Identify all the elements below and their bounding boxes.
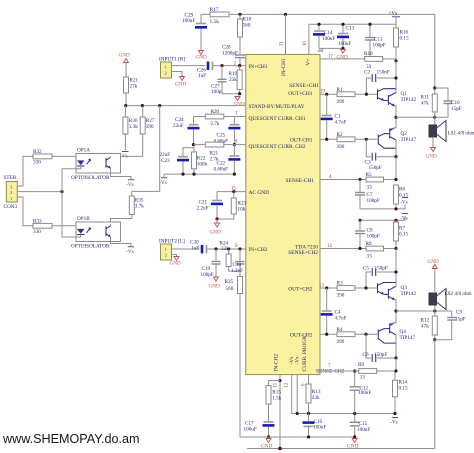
- svg-text:C5: C5: [363, 266, 369, 272]
- wire sense bottom link: [360, 205, 405, 209]
- svg-text:3.3k: 3.3k: [129, 124, 138, 130]
- svg-text:C9: C9: [456, 310, 462, 316]
- wire INPUT1 pin2 to gnd: [172, 72, 183, 77]
- resistor R10: [364, 51, 396, 70]
- resistor R32: [33, 149, 81, 165]
- resistor R3: [337, 281, 378, 299]
- svg-text:OP1B: OP1B: [77, 216, 90, 222]
- net -Vs sense CH1: [400, 198, 408, 206]
- node R3 C5 junction: [364, 286, 367, 289]
- svg-text:9: 9: [235, 244, 238, 249]
- svg-text:R33: R33: [33, 219, 42, 225]
- svg-text:TIP147: TIP147: [401, 137, 417, 143]
- node Q1 Q2 output: [394, 116, 397, 119]
- wire Q2 collector to R5 node: [395, 157, 397, 180]
- svg-text:u8: u8: [318, 49, 324, 54]
- wire OP1A collector: [110, 155, 112, 158]
- node C4 bottom: [325, 333, 328, 336]
- capacitor C21: [197, 192, 224, 219]
- wire -Vs pin13 drop: [296, 375, 298, 414]
- resistor R21: [124, 77, 139, 106]
- capacitor C5: [363, 266, 396, 289]
- wire +Vs rail: [309, 23, 396, 25]
- svg-text:100nF: 100nF: [357, 427, 370, 433]
- svg-text:3.7k: 3.7k: [135, 204, 144, 210]
- capacitor C26: [197, 62, 246, 80]
- svg-text:-Vs: -Vs: [126, 183, 133, 188]
- wire output CH2 to speaker node: [396, 310, 452, 312]
- wire OP1A emitter to -Vs: [111, 168, 132, 179]
- resistor R22: [192, 147, 208, 174]
- node C5 tap: [394, 270, 397, 273]
- node -Vs bus C15: [353, 412, 356, 415]
- resistor R7: [394, 220, 409, 248]
- node C8 top: [358, 219, 361, 222]
- capacitor C25: [214, 117, 241, 145]
- node C19 top: [214, 247, 217, 250]
- svg-text:15pF: 15pF: [451, 106, 462, 112]
- ground net label above R21: [119, 53, 130, 78]
- resistor R11: [421, 88, 438, 117]
- svg-text:100uF: 100uF: [338, 41, 351, 47]
- transistor Q4 TIP147: [378, 311, 415, 358]
- resistor R15: [266, 381, 282, 421]
- resistor R1: [337, 87, 378, 105]
- node C7 top: [358, 178, 361, 181]
- node bus C23: [181, 173, 184, 176]
- svg-text:-Vs: -Vs: [121, 155, 128, 160]
- wire INPUT2 pin1 to C20: [172, 248, 200, 250]
- capacitor C12: [350, 371, 372, 414]
- node IN-CH1 top junction: [284, 13, 287, 16]
- svg-text:390: 390: [337, 339, 345, 345]
- capacitor C3: [365, 139, 397, 171]
- wire INPUT1 pin1 to C26: [172, 65, 206, 67]
- resistor R19: [229, 66, 243, 94]
- ground at C13 C14: [337, 49, 348, 60]
- svg-text:-Vs: -Vs: [390, 421, 397, 426]
- node R8 R7 Q3 feed: [394, 247, 397, 250]
- ground below INPUT2: [170, 257, 181, 267]
- node R1 C2 junction: [365, 93, 368, 96]
- svg-text:TIP142: TIP142: [401, 97, 417, 103]
- svg-text:GND: GND: [175, 82, 186, 88]
- svg-text:-Vs: -Vs: [159, 181, 166, 186]
- svg-text:R25: R25: [225, 279, 234, 285]
- svg-text:100pF: 100pF: [373, 43, 386, 49]
- svg-text:QUESCENT CURR. CH2: QUESCENT CURR. CH2: [249, 144, 306, 150]
- resistor R5: [366, 172, 397, 190]
- resistor R35: [111, 196, 145, 224]
- svg-text:IN-CH1: IN-CH1: [281, 58, 287, 76]
- power +Vs: [389, 11, 401, 25]
- capacitor C20: [190, 240, 246, 254]
- capacitor C2: [364, 70, 396, 95]
- wire IN-CH1 top drop: [285, 14, 287, 54]
- wire STER pin3 to R32: [17, 156, 33, 186]
- svg-text:100uF: 100uF: [182, 18, 195, 24]
- svg-text:8: 8: [235, 140, 238, 145]
- wire Q3 collector feed: [395, 249, 397, 284]
- svg-text:OPTOISOLATOR: OPTOISOLATOR: [71, 244, 110, 250]
- resistor R12: [421, 311, 438, 340]
- svg-text:560: 560: [243, 23, 251, 29]
- node rail IN-CH2: [278, 447, 282, 451]
- svg-text:R3: R3: [337, 281, 343, 287]
- ground above LS2: [428, 259, 439, 269]
- svg-text:100uF: 100uF: [313, 425, 326, 431]
- wire pin17 stub: [320, 58, 365, 60]
- svg-text:R9: R9: [358, 362, 364, 368]
- svg-text:16: 16: [303, 41, 308, 46]
- resistor R36: [123, 106, 138, 151]
- node -Vs bus R13: [307, 412, 310, 415]
- node C17 gnd: [267, 435, 270, 438]
- wire -Vs pin12 drop: [292, 375, 395, 414]
- capacitor C23: [160, 148, 195, 174]
- svg-text:100pF: 100pF: [201, 272, 214, 278]
- wire OP1B collector: [110, 224, 112, 226]
- node speaker LS2 bottom: [433, 309, 436, 312]
- svg-text:OP1A: OP1A: [77, 148, 90, 154]
- capacitor C1: [321, 94, 347, 139]
- svg-text:390: 390: [337, 144, 345, 150]
- node IN-CH2 R15 branch: [278, 379, 281, 382]
- wire SENSE+CH2 stub: [320, 248, 366, 250]
- resistor R14: [393, 371, 408, 414]
- wire OP1B cathode to common: [62, 192, 81, 237]
- node standby R21: [124, 104, 127, 107]
- svg-text:R17: R17: [210, 7, 219, 13]
- node C21 bottom: [215, 217, 218, 220]
- svg-text:2.7k: 2.7k: [211, 121, 220, 127]
- resistor R2: [337, 132, 378, 150]
- svg-text:390: 390: [337, 293, 345, 299]
- svg-text:330: 330: [33, 159, 41, 165]
- svg-text:1200pF: 1200pF: [222, 51, 238, 57]
- net -Vs below R14: [390, 418, 398, 426]
- wire OUT-CH2 stub: [320, 333, 337, 335]
- node standby R27: [141, 104, 144, 107]
- svg-text:R10: R10: [364, 51, 373, 57]
- svg-text:OUT+CH1: OUT+CH1: [288, 91, 313, 97]
- svg-text:390: 390: [146, 124, 154, 130]
- svg-text:-Vs: -Vs: [126, 250, 133, 255]
- svg-text:R20: R20: [211, 109, 220, 115]
- resistor R33: [33, 219, 81, 235]
- svg-text:1.5k: 1.5k: [272, 396, 281, 402]
- svg-text:1.5k: 1.5k: [210, 19, 220, 25]
- svg-text:C23: C23: [161, 158, 170, 164]
- svg-text:47k: 47k: [421, 324, 429, 330]
- svg-text:560: 560: [226, 286, 234, 292]
- svg-text:2.2uF: 2.2uF: [197, 206, 209, 212]
- capacitor C8: [355, 220, 380, 248]
- wire V+ drop from +Vs rail: [308, 24, 310, 54]
- node R11 top feedback: [433, 86, 436, 89]
- net -Vs OP1A emitter: [126, 180, 134, 188]
- capacitor C11: [365, 24, 386, 59]
- svg-text:10k: 10k: [238, 207, 246, 213]
- ground below C19: [209, 277, 220, 290]
- svg-text:SENSE-CH1: SENSE-CH1: [286, 178, 315, 184]
- wire C14 C13 gnd link: [319, 47, 343, 49]
- svg-text:AC GND: AC GND: [249, 190, 270, 196]
- capacitor C13: [337, 24, 355, 48]
- node R5 R6: [394, 178, 397, 181]
- capacitor C9: [435, 310, 466, 340]
- svg-text:330: 330: [33, 229, 41, 235]
- optoisolator OP1B: [71, 216, 121, 250]
- svg-text:22k: 22k: [221, 246, 229, 252]
- capacitor C27: [211, 66, 240, 95]
- net -Vs quiescent bus: [159, 174, 167, 186]
- svg-text:QUESCENT CURR. CH1: QUESCENT CURR. CH1: [249, 116, 306, 122]
- wire OUT-CH1 stub: [320, 138, 337, 140]
- svg-text:33: 33: [367, 253, 373, 259]
- svg-text:www.SHEMOPAY.do.am: www.SHEMOPAY.do.am: [2, 432, 139, 446]
- svg-text:14: 14: [327, 244, 332, 249]
- svg-text:SENSE+CH1: SENSE+CH1: [289, 83, 319, 89]
- svg-text:GND: GND: [119, 53, 130, 59]
- wire stand-by line: [126, 105, 246, 107]
- svg-text:100uF: 100uF: [322, 36, 335, 42]
- node C2 tap: [394, 76, 397, 79]
- svg-text:100pF: 100pF: [367, 198, 380, 204]
- node LED common: [60, 190, 63, 193]
- capacitor C14: [313, 24, 335, 48]
- svg-text:C2: C2: [364, 70, 370, 76]
- node -Vs bus pin13: [296, 412, 299, 415]
- svg-text:GND: GND: [428, 259, 439, 265]
- svg-text:100p: 100p: [211, 89, 222, 95]
- svg-text:GND: GND: [210, 230, 221, 236]
- capacitor C24: [173, 117, 200, 145]
- node R16 R10: [394, 59, 397, 62]
- svg-text:GND: GND: [234, 102, 245, 108]
- resistor R25: [225, 271, 243, 437]
- connector STER CON3: [4, 175, 18, 210]
- wire OP1A cathode to common: [62, 166, 81, 192]
- svg-text:-Vs: -Vs: [400, 201, 407, 206]
- svg-text:OPTOISOLATOR: OPTOISOLATOR: [71, 175, 110, 181]
- ground below C29: [196, 51, 207, 61]
- node C18 top: [238, 247, 241, 250]
- svg-text:0.15: 0.15: [399, 385, 408, 391]
- svg-text:13: 13: [319, 284, 324, 289]
- svg-text:V+: V+: [306, 59, 312, 66]
- svg-text:C6: C6: [363, 352, 369, 358]
- wire Q4 collector to R9 node: [395, 358, 397, 371]
- node bus R22: [192, 173, 195, 176]
- resistor R24: [220, 240, 241, 271]
- node standby R35 drop: [158, 104, 161, 107]
- ground below C21: [210, 219, 221, 236]
- net -Vs sense CH2: [400, 214, 408, 222]
- svg-text:GND: GND: [170, 261, 181, 267]
- svg-text:100k: 100k: [197, 162, 208, 168]
- speaker LS2: [429, 269, 472, 311]
- svg-text:GND: GND: [337, 55, 348, 61]
- svg-text:R1: R1: [337, 87, 343, 93]
- node pin17 C11: [368, 57, 371, 60]
- svg-text:47k: 47k: [421, 101, 429, 107]
- wire R35 drop from standby: [132, 106, 160, 196]
- resistor R23: [217, 192, 247, 219]
- node C25 bottom pin8: [233, 143, 236, 146]
- svg-text:R4: R4: [337, 327, 343, 333]
- IC U1 TDA7250 body: [246, 54, 320, 374]
- svg-text:OUT+CH2: OUT+CH2: [288, 286, 313, 292]
- svg-text:0.68uF: 0.68uF: [214, 167, 229, 173]
- svg-text:1uF: 1uF: [191, 245, 199, 251]
- svg-text:150pF: 150pF: [374, 352, 387, 358]
- capacitor C28: [222, 37, 245, 66]
- svg-text:LS2 4/8 ohm: LS2 4/8 ohm: [445, 291, 472, 297]
- capacitor C16: [303, 414, 327, 438]
- net -Vs below R36: [121, 152, 129, 160]
- svg-text:100uF: 100uF: [358, 390, 371, 396]
- wire pin15 stub: [217, 191, 246, 193]
- wire pin8 stub: [234, 144, 245, 146]
- node rail C13: [341, 23, 344, 26]
- node R9 R14: [394, 369, 397, 372]
- svg-text:TIP142: TIP142: [401, 291, 417, 297]
- svg-text:11: 11: [274, 382, 279, 387]
- svg-text:R8: R8: [366, 241, 372, 247]
- svg-text:23k: 23k: [229, 77, 237, 83]
- svg-text:0.15: 0.15: [400, 36, 409, 42]
- svg-text:17: 17: [328, 55, 333, 60]
- capacitor C17: [244, 421, 275, 437]
- connector INPUT1: [159, 57, 185, 79]
- svg-text:R2: R2: [337, 132, 343, 138]
- node C4 top: [325, 286, 328, 289]
- wire OUT+CH2 stub: [320, 287, 337, 289]
- resistor R13: [306, 375, 321, 414]
- svg-text:150nF: 150nF: [377, 70, 390, 76]
- svg-text:SENSE+CH2: SENSE+CH2: [288, 250, 318, 256]
- capacitor C7: [355, 180, 380, 209]
- transistor Q1 TIP142: [378, 89, 417, 118]
- node R2 C3 junction: [365, 138, 368, 141]
- svg-text:TIP147: TIP147: [400, 335, 416, 341]
- wire sense top link CH2: [360, 216, 405, 220]
- resistor R17: [210, 7, 230, 25]
- node gnd link: [341, 47, 344, 50]
- resistor R20: [194, 109, 235, 127]
- svg-text:IN-CH2: IN-CH2: [274, 354, 280, 372]
- node Q3 Q4 output: [394, 309, 397, 312]
- ground below LS1: [426, 148, 437, 160]
- wire pin3 stub: [234, 116, 245, 118]
- wire SENSE-CH1 stub: [320, 179, 366, 181]
- svg-text:19: 19: [320, 90, 325, 95]
- node R6 bottom: [394, 207, 397, 210]
- capacitor C15: [350, 414, 371, 437]
- wire STER pin1 to R33: [17, 197, 33, 226]
- capacitor C18: [231, 249, 245, 274]
- net -Vs OP1B emitter: [126, 247, 134, 255]
- node Q4 collector C6: [394, 356, 397, 359]
- node C8 bottom: [358, 247, 361, 250]
- node sense-ch2 C12: [353, 369, 356, 372]
- wire SENSE-CH2 stub: [320, 370, 359, 372]
- wire R12 bottom to feedback rail: [434, 340, 436, 449]
- speaker LS1: [429, 117, 474, 147]
- resistor R6: [394, 185, 409, 209]
- transistor Q3 TIP142: [378, 283, 417, 312]
- resistor R18: [238, 14, 252, 37]
- node C27 top: [220, 64, 223, 67]
- node rail C11: [368, 23, 371, 26]
- svg-text:LS1 4/8 ohm: LS1 4/8 ohm: [448, 131, 474, 137]
- wire STER pin2 to LED node: [17, 191, 62, 193]
- svg-text:23k: 23k: [312, 395, 320, 401]
- svg-text:INPUT1 [R]: INPUT1 [R]: [159, 57, 185, 63]
- resistor R27: [111, 106, 155, 157]
- resistor R8: [366, 241, 397, 259]
- capacitor C29: [182, 13, 207, 51]
- svg-text:OUT-CH1: OUT-CH1: [290, 138, 313, 144]
- svg-text:22uF: 22uF: [173, 123, 184, 129]
- svg-text:390: 390: [337, 99, 345, 105]
- wire INPUT2 pin2 to gnd: [172, 255, 177, 257]
- svg-text:12: 12: [285, 382, 290, 387]
- transistor Q2 TIP147: [378, 117, 416, 156]
- svg-text:R32: R32: [33, 149, 42, 155]
- node Q2 collector C3: [394, 155, 397, 158]
- svg-text:-Vs: -Vs: [295, 357, 301, 365]
- svg-text:33: 33: [360, 374, 366, 380]
- svg-text:CON3: CON3: [4, 204, 18, 210]
- svg-text:1uF: 1uF: [198, 73, 206, 79]
- node gnd bus C16: [307, 435, 310, 438]
- node bus C22: [233, 173, 236, 176]
- svg-text:21: 21: [280, 41, 285, 46]
- ground below R19: [234, 97, 245, 108]
- wire CH1 feedback right drop to R11: [434, 14, 436, 88]
- node R7 top: [394, 219, 397, 222]
- svg-text:GND: GND: [426, 154, 437, 160]
- node -Vs bus R14: [393, 412, 396, 415]
- svg-text:GND: GND: [196, 55, 207, 61]
- node R4 C6 junction: [364, 333, 367, 336]
- resistor R16: [394, 24, 409, 61]
- svg-text:IN+CH2: IN+CH2: [249, 247, 268, 253]
- svg-text:100uF: 100uF: [244, 426, 257, 432]
- svg-text:IN+CH1: IN+CH1: [249, 64, 268, 70]
- optoisolator OP1A: [71, 148, 121, 181]
- node IN+CH1 pin junction: [238, 64, 241, 67]
- wire feedback rail CH2 bottom: [247, 448, 435, 450]
- svg-text:150pF: 150pF: [375, 266, 388, 272]
- node rail C14: [317, 23, 320, 26]
- wire quiescent bottom bus: [164, 173, 234, 175]
- capacitor C22: [214, 145, 241, 175]
- node R19 bottom: [238, 92, 241, 95]
- svg-text:100pF: 100pF: [367, 234, 380, 240]
- wire OP1B emitter to -Vs: [111, 237, 132, 246]
- svg-text:1.2nF: 1.2nF: [231, 268, 243, 274]
- resistor R21b: [194, 142, 235, 162]
- svg-text:STAND-BY/MUTE/PLAY: STAND-BY/MUTE/PLAY: [249, 104, 305, 110]
- wire IN-CH2 pin drop: [279, 375, 281, 449]
- svg-text:4.7uF: 4.7uF: [335, 315, 347, 321]
- node R24 top: [227, 247, 230, 250]
- node C1 bottom: [325, 138, 328, 141]
- wire OUT+CH1 stub: [320, 93, 337, 95]
